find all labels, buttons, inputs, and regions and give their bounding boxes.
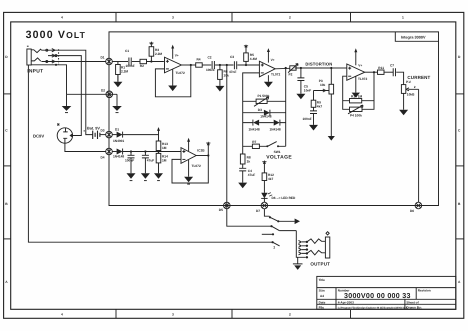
svg-text:47nF: 47nF (229, 70, 236, 74)
wire anti-series diode branch (243, 122, 286, 124)
LED D6 (261, 193, 267, 199)
pole 2 output wire to jack (279, 230, 296, 232)
pole 3 lever (273, 242, 280, 246)
node F junction circle on rail (224, 202, 231, 209)
Integra label box top right (395, 32, 438, 41)
svg-text:10k: 10k (320, 83, 326, 87)
svg-text:100nF: 100nF (126, 64, 135, 68)
svg-text:2: 2 (289, 313, 291, 317)
svg-text:V+: V+ (175, 54, 179, 58)
IC1A feedback loop wire (155, 65, 190, 97)
resistor R1 (116, 65, 121, 75)
resistor R12 (262, 173, 267, 181)
zone tick right 3 (456, 238, 464, 240)
svg-text:47uF: 47uF (147, 159, 154, 163)
svg-text:1N4148: 1N4148 (249, 128, 260, 132)
diode D5 pointing right (274, 120, 280, 126)
svg-text:1: 1 (402, 16, 404, 20)
svg-text:C7: C7 (390, 64, 394, 68)
svg-text:R11: R11 (378, 66, 384, 70)
IC2A V+ pin arrow (355, 52, 357, 66)
pole 1 stub from node G (264, 209, 269, 216)
pole 3 contact wire (262, 233, 273, 235)
wire P3 bottom (330, 94, 332, 136)
jack ground (293, 257, 303, 264)
jack body rect (325, 237, 329, 258)
zone tick right 2 (456, 165, 464, 167)
title block row lines (317, 288, 456, 305)
jack tip spring (307, 239, 326, 244)
jack pin leads (302, 242, 307, 254)
resistor R5 bias with stubs (245, 47, 247, 65)
jack ring spring (307, 250, 326, 255)
resistor R7 (252, 144, 259, 148)
capacitor C3 (234, 61, 236, 69)
resistor R6 (218, 70, 223, 80)
op-amp IC1A (165, 48, 182, 73)
svg-text:1M: 1M (162, 158, 167, 162)
svg-text:3000 VOLT: 3000 VOLT (26, 29, 86, 41)
wire node D to D1 (112, 134, 116, 136)
wire R7 switch branch (243, 145, 286, 147)
svg-text:3: 3 (172, 16, 174, 20)
input jack J1 contact 1 (52, 49, 55, 52)
off-sheet arrow pole 1 (295, 219, 300, 225)
wire IC2A out (365, 71, 378, 73)
ground below C6 (309, 125, 318, 131)
wire down to tone pot P3 (330, 68, 332, 84)
resistor R11 (378, 70, 385, 74)
ground below C5 (296, 94, 305, 100)
zone tick top 3 (350, 12, 352, 22)
capacitor C6 (310, 111, 317, 114)
svg-text:1N4148: 1N4148 (270, 128, 281, 132)
junction dot C2/R6 (219, 64, 221, 66)
title block outline (317, 276, 456, 309)
svg-text:1N4148: 1N4148 (260, 115, 271, 119)
junction dot IC1A out (190, 64, 192, 66)
resistor R1 stub (117, 62, 119, 82)
op-amp IC2A (331, 52, 364, 81)
svg-text:2.2M: 2.2M (121, 70, 128, 74)
resistor R8 below feedback (240, 154, 245, 164)
ground bus wire (67, 93, 118, 95)
svg-text:Title: Title (319, 278, 326, 282)
ground bus stub left (66, 94, 68, 106)
junction dot rail/vertical (226, 64, 228, 66)
resistor R3 bias with stubs (150, 44, 152, 61)
IC2B feedback loop (172, 156, 208, 184)
capacitor C4 (239, 168, 246, 171)
resistor R2 (140, 59, 147, 63)
svg-text:10kB: 10kB (407, 93, 415, 97)
potentiometer P2 (290, 66, 296, 70)
svg-text:Sheet of: Sheet of (406, 300, 419, 304)
zone tick top 1 (115, 12, 117, 22)
svg-text:D1: D1 (115, 128, 119, 132)
svg-text:R2: R2 (140, 64, 144, 68)
potentiometer P5 volume (401, 85, 405, 94)
wire bypass from jack down to footswitch (28, 65, 272, 242)
wire R12 to LED (263, 181, 265, 193)
zone tick bottom 3 (350, 310, 352, 318)
ground bus stub right (116, 94, 118, 106)
input jack J1 body (27, 49, 31, 65)
svg-text:4: 4 (61, 16, 63, 20)
wire P5 bottom to ground (403, 93, 405, 109)
IC1A V+ pin arrow (172, 48, 174, 59)
pole 2 lever (272, 226, 280, 230)
svg-text:R4: R4 (197, 57, 201, 61)
svg-text:1M: 1M (162, 146, 167, 150)
footswitch SW2 (262, 209, 297, 246)
svg-text:SW1: SW1 (274, 150, 281, 154)
svg-text:3000V00 00 000 33: 3000V00 00 000 33 (344, 292, 411, 300)
svg-text:47uF: 47uF (248, 173, 255, 177)
wire C7 to P5 (396, 72, 403, 84)
potentiometer P3 (329, 84, 334, 94)
input jack J1 contact 2 (52, 54, 55, 57)
zone tick right 1 (456, 93, 464, 95)
svg-text:2.2M: 2.2M (155, 52, 162, 56)
wire P5 wiper down to node (418, 89, 420, 202)
wire D1 to Vplus (123, 134, 159, 136)
zone tick left 3 (4, 238, 11, 240)
ground below P3 (328, 136, 335, 141)
jack contact chevrons (299, 240, 302, 243)
capacitor C5 stub (300, 68, 302, 94)
node C junction circle (415, 202, 422, 209)
svg-text:10k: 10k (224, 74, 230, 78)
resistor R14 (156, 151, 161, 174)
wire big loop rail (109, 32, 439, 206)
resistor R6 stub (219, 65, 221, 86)
svg-text:D3: D3 (258, 108, 262, 112)
svg-text:P4 100k: P4 100k (350, 114, 362, 118)
potentiometer P4 (350, 107, 363, 111)
Vref arrow at IC2B out (207, 145, 209, 156)
svg-text:D6 --> LED RED: D6 --> LED RED (272, 196, 297, 200)
svg-text:100nF: 100nF (303, 117, 312, 121)
capacitor C1 (129, 58, 131, 66)
ground left of bus (62, 106, 72, 111)
svg-text:DISTORTION: DISTORTION (305, 62, 332, 67)
svg-text:R7: R7 (252, 140, 256, 144)
svg-text:Date: Date (319, 300, 326, 304)
svg-text:P1 500k: P1 500k (258, 94, 270, 98)
svg-text:OUTPUT: OUTPUT (310, 261, 330, 266)
svg-text:TL072: TL072 (271, 73, 280, 77)
footswitch contact dots (269, 216, 271, 218)
svg-text:P2: P2 (289, 72, 293, 76)
svg-text:A4: A4 (320, 294, 324, 298)
wire R10 branch (343, 100, 374, 102)
svg-text:P.V.: P.V. (406, 80, 412, 84)
svg-text:R10 1M: R10 1M (351, 94, 363, 98)
junction dot P2/C5 (300, 67, 302, 69)
wire jack sleeve to ground bus (31, 65, 66, 95)
ground below R1 (113, 75, 122, 88)
IC1A ground pin (172, 69, 174, 85)
svg-text:TL072: TL072 (358, 77, 367, 81)
ground below C9 (141, 173, 150, 179)
svg-text:VOLTAGE: VOLTAGE (266, 155, 292, 161)
wire IC2B out (196, 155, 208, 157)
IC2A feedback network (343, 72, 374, 114)
switch SW1 (268, 142, 277, 147)
svg-text:2: 2 (273, 245, 275, 249)
wire vertical to bottom rail (227, 65, 272, 226)
title block texts (319, 278, 431, 309)
svg-text:D4: D4 (101, 156, 105, 160)
sleeve junction dot (55, 64, 57, 66)
node E junction circle (106, 148, 113, 155)
node D junction circle (106, 131, 113, 138)
capacitor C5 (297, 78, 304, 81)
svg-text:D6: D6 (410, 209, 414, 213)
svg-text:C2: C2 (208, 55, 212, 59)
svg-text:D7: D7 (256, 209, 260, 213)
diode D3 (264, 110, 270, 116)
junction dot IC2B out (207, 154, 209, 156)
wire R11 to C7 (384, 71, 393, 73)
ground below R6 (215, 86, 224, 92)
svg-text:D5: D5 (219, 208, 223, 212)
wire jack signal to node A (41, 61, 105, 63)
IC1B ground pin (267, 75, 269, 82)
wire diode branch D3 (243, 112, 286, 114)
ground below R14 (154, 173, 163, 179)
svg-text:1N4148: 1N4148 (113, 155, 124, 159)
output jack J2 (296, 231, 330, 258)
wire C3 to IC1B (237, 64, 259, 66)
IC2A ground pin (355, 76, 357, 92)
input jack J1 tip prong (31, 49, 41, 52)
node B junction circle (106, 91, 113, 98)
DC jack J3 (57, 124, 105, 152)
diode D4 pointing left (253, 120, 259, 126)
zone tick top 2 (231, 12, 233, 22)
svg-text:C3: C3 (230, 55, 234, 59)
Vref arrow above LED chain (263, 163, 265, 173)
input jack J1 contact 3 (52, 60, 55, 63)
wire R4 to C2 (202, 64, 211, 66)
resistor R9 chain (313, 91, 315, 111)
Vplus arrow above divider (158, 130, 160, 141)
svg-text:Drawn By:: Drawn By: (406, 305, 421, 309)
wire LED to node G (263, 198, 265, 202)
wire jack contact to battery minus (41, 50, 92, 134)
wire IC1B out to P2 (275, 67, 290, 70)
ground right of bus (112, 106, 122, 111)
op-amp IC2B (181, 141, 196, 163)
potentiometer P1 (256, 99, 267, 103)
Vref arrow above R3 (150, 41, 153, 44)
svg-text:IC2B: IC2B (197, 149, 205, 153)
jack polarity diamond (326, 232, 329, 235)
wire P2 to tone (295, 67, 332, 69)
svg-text:4k7: 4k7 (317, 104, 323, 108)
svg-text:D2: D2 (101, 89, 105, 93)
Vref arrow above R5 (245, 44, 248, 47)
svg-text:4k7: 4k7 (268, 177, 274, 181)
svg-text:4: 4 (61, 313, 63, 317)
svg-text:4.4M: 4.4M (250, 57, 257, 61)
wire IC1A out (181, 64, 195, 66)
capacitor C9 (142, 152, 149, 174)
wire R2 to IC1A (147, 61, 164, 63)
svg-text:V+: V+ (271, 58, 275, 62)
pole 1 lever (270, 217, 278, 221)
wire C2 to C3 (215, 64, 233, 66)
wire jack contact to DC jack pin (48, 56, 81, 136)
node G junction circle (261, 202, 268, 209)
svg-text:2: 2 (289, 16, 291, 20)
jack sleeve entry wire (296, 231, 305, 258)
IC2B V+ pin arrow (188, 141, 190, 151)
IC1B feedback network (243, 68, 286, 154)
wire D2 to divider (123, 151, 181, 153)
resistor R13 (156, 141, 161, 151)
zone tick bottom 1 (115, 309, 117, 318)
svg-text:4-Apr-2003: 4-Apr-2003 (338, 300, 354, 304)
wire node E to D2 (112, 151, 116, 153)
svg-text:TL072: TL072 (192, 164, 201, 168)
title block column lines (336, 288, 416, 310)
DC jack pin arrow (69, 134, 72, 138)
svg-text:File: File (319, 305, 325, 309)
diode D2 (117, 149, 123, 155)
input jack J1 switch dashed line (58, 49, 60, 64)
wire pot branch P1 (243, 100, 286, 102)
svg-text:Integra 3000V: Integra 3000V (401, 35, 426, 39)
node A junction circle (106, 58, 113, 65)
ground below C4 (238, 183, 247, 189)
svg-text:Bat. 9V: Bat. 9V (87, 126, 100, 130)
svg-text:C:\Program Files\Design Explor: C:\Program Files\Design Explorer 99 SE\E… (338, 306, 408, 309)
battery BT1 (84, 131, 106, 139)
svg-text:10nF: 10nF (304, 88, 311, 92)
capacitor C8 (128, 152, 135, 174)
input jack J1 tick mark (27, 45, 29, 47)
op-amp IC1B (259, 51, 275, 77)
junction dot R3/rail (150, 60, 152, 62)
resistor R4 (196, 63, 203, 67)
IC2B ground pin (188, 160, 190, 177)
input jack J1 terminal circles (46, 49, 48, 51)
svg-text:Size: Size (319, 289, 325, 293)
junction dot R5/rail (245, 64, 247, 66)
wire output junction to right column (285, 68, 287, 146)
svg-text:TL072: TL072 (176, 71, 185, 75)
resistor R10 (350, 99, 362, 103)
jack pin dots (306, 241, 308, 243)
svg-text:1N4001: 1N4001 (113, 139, 124, 143)
svg-text:D1: D1 (101, 56, 105, 60)
junction dot IC1B out (285, 67, 287, 69)
junction dot divider (157, 150, 159, 152)
svg-text:V+: V+ (358, 63, 362, 67)
ground below P5 (399, 110, 408, 116)
input jack J1 ring prong (31, 58, 41, 61)
wire C1 to R2 (132, 61, 140, 63)
svg-text:D3: D3 (101, 129, 105, 133)
capacitor C7 (393, 68, 395, 76)
svg-text:INPUT: INPUT (27, 68, 43, 74)
wire minus input to left column (243, 73, 260, 154)
ground below C8 (127, 173, 136, 179)
svg-text:100uF: 100uF (125, 159, 134, 163)
capacitor C2 (212, 61, 214, 69)
junction dot tone rail (330, 67, 332, 69)
svg-text:3: 3 (172, 313, 174, 317)
zone tick left 1 (4, 93, 11, 95)
IC1B V+ pin arrow (267, 51, 269, 62)
junction dot IC2A out (373, 71, 375, 73)
svg-text:Revision: Revision (418, 289, 431, 293)
svg-text:DC9V: DC9V (33, 133, 44, 138)
diode D1 (117, 132, 123, 138)
svg-text:C1: C1 (125, 49, 129, 53)
pole 1 output wire (278, 220, 294, 222)
svg-text:100nF: 100nF (206, 68, 215, 72)
zone tick left 2 (4, 165, 11, 167)
svg-text:1k: 1k (247, 159, 251, 163)
zone tick bottom 2 (231, 309, 233, 318)
wire node A to C1 (112, 61, 128, 63)
